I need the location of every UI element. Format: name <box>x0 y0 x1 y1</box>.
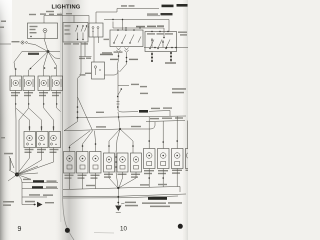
arrow chevrons under B4 <box>117 48 129 53</box>
gray label L/GN <box>147 13 158 14</box>
wire J1 right to long vertical <box>48 51 60 53</box>
stubs below tail lamps to bus <box>70 173 96 189</box>
diagonal to lamp fan <box>78 97 93 131</box>
wire CX right to V1 <box>105 71 119 75</box>
label row above boxes <box>29 11 72 15</box>
right page left edge line <box>63 4 74 240</box>
rear lamp RL2 <box>158 149 170 169</box>
labels below rear lamps <box>144 170 188 175</box>
tail light switch on V1 <box>117 88 123 108</box>
OFF label left of B4 <box>104 39 110 40</box>
rear lamp RL4 partial <box>186 149 194 169</box>
wires below center lamps converging to ground junction J3 <box>109 172 136 188</box>
bus labels y185 <box>86 184 167 186</box>
flasher component at 22,42 <box>21 41 28 44</box>
wire B2 to B3 <box>88 26 89 28</box>
fuse box B1 <box>28 23 58 39</box>
B6 internal label row <box>147 33 173 34</box>
punch hole dot right <box>178 224 183 229</box>
labels below B4 <box>100 54 138 60</box>
center lamp CB3 <box>131 153 142 172</box>
labels below front lamps <box>11 92 61 96</box>
rear lamp RL3 <box>172 149 184 169</box>
bottom right text rows <box>142 202 182 207</box>
branch wire to right at y111 <box>118 110 138 112</box>
branch y182 <box>22 182 58 184</box>
mid lamp MB3 <box>49 132 61 148</box>
wire B3 down to connector box <box>93 37 95 62</box>
wires below rear lamps <box>148 169 177 188</box>
headlamp switch box B4 <box>110 30 143 47</box>
front lamp LB3 <box>38 76 50 91</box>
wire J1 to flasher <box>28 44 48 52</box>
punch hole dot left <box>65 228 70 233</box>
bus H2 y121 right <box>146 121 185 122</box>
ground tail harness <box>17 175 22 205</box>
double bus y196 <box>63 194 186 197</box>
V1 lower crossing H1 <box>118 112 120 129</box>
connector dots on lamp feeds <box>15 67 56 70</box>
riser into B4 <box>122 20 124 31</box>
front lamp LB1 <box>10 76 22 91</box>
wire J1 left and down to lamp1 <box>14 52 48 74</box>
branch y197 <box>22 196 47 198</box>
labels right of switch <box>140 93 148 94</box>
turn signal switch box B6 <box>145 32 177 52</box>
tail lamp LL2 <box>77 152 89 174</box>
harness ground symbol <box>22 202 43 207</box>
rear lamp RL1 <box>144 149 156 169</box>
labels below B2 wires <box>79 58 91 60</box>
tail lamp LL1 <box>64 152 76 174</box>
mid lamp MB1 <box>24 132 36 148</box>
svg-text:LIGHTING: LIGHTING <box>52 5 81 11</box>
switch box B2 <box>63 23 88 43</box>
center lamp CB2 <box>117 153 128 172</box>
connector chain below B6 left <box>151 52 153 63</box>
GY labels <box>85 51 123 74</box>
fan J1 to front lamps <box>16 52 57 77</box>
bus H0 y47.5 <box>144 47 188 49</box>
label 4T 4RD <box>121 5 135 7</box>
left page right edge shadow line <box>60 12 62 222</box>
extra wire segment top right <box>147 15 160 17</box>
center lamp CB1 <box>104 153 115 172</box>
B6 levers <box>149 31 170 49</box>
junction J3 and ground G2 <box>115 187 121 213</box>
CX internals <box>94 66 100 75</box>
labels below B2 <box>64 43 88 44</box>
svg-text:9: 9 <box>18 226 22 233</box>
risers above tail lamps <box>69 131 97 152</box>
B3 internals <box>92 27 99 38</box>
connector chain below B6 right <box>170 52 172 63</box>
dark label block row2 <box>161 13 173 15</box>
left text block <box>3 201 14 206</box>
dark label under left wire <box>28 53 39 55</box>
B2 internal switches <box>76 25 88 40</box>
junction on H3 <box>119 128 121 130</box>
fuse F in B1 <box>30 26 38 34</box>
8BK label on drop <box>80 74 86 75</box>
bus H3 y129 with 4RD labels <box>64 122 155 131</box>
wire riser into B2 <box>73 16 75 23</box>
B6 right labels <box>178 32 187 36</box>
front lamp LB4 <box>51 76 63 91</box>
right page lighter paper <box>63 0 183 240</box>
long bus y188 across both pages <box>63 187 180 193</box>
drop wires to right lamp cluster <box>148 117 187 149</box>
tail lamp LL3 <box>90 152 102 174</box>
left edge small marks <box>0 21 6 29</box>
junction J1 <box>47 50 50 53</box>
star ground junction GJ <box>8 166 38 181</box>
wires below B4 into V1 <box>118 53 128 72</box>
connector pairs above mid lamps <box>29 128 54 129</box>
labels below mid lamps <box>25 149 59 153</box>
long vertical from B2 switches <box>77 57 81 122</box>
black label blocks top right <box>162 4 188 7</box>
wire B1 to top bus <box>44 16 89 24</box>
wires below front lamps rerouting <box>16 91 61 174</box>
gutter shadow band between pages <box>54 0 90 240</box>
wire w2 <box>113 22 165 39</box>
bottom right black label block <box>148 197 167 200</box>
branch right at y85 <box>118 85 129 87</box>
8BK label near gutter <box>96 112 104 113</box>
stub wires with dots inside B6 <box>151 38 164 48</box>
wire from left edge <box>0 43 11 45</box>
svg-text:10: 10 <box>120 226 127 233</box>
relay box B3 <box>89 23 103 37</box>
connector box CX <box>92 62 105 79</box>
chain wire between CB1 CB2 <box>115 153 117 172</box>
mid lamp MB2 <box>37 132 49 148</box>
top feed wire to headlamp switch <box>96 9 159 24</box>
B4 switch levers <box>113 29 141 44</box>
branch y188 <box>22 188 58 190</box>
GJ labels <box>4 153 31 180</box>
tiny label left edge <box>1 137 5 138</box>
wire B1 to J1 <box>44 39 48 52</box>
front lamp LB2 <box>23 76 35 91</box>
labels below center lamps <box>104 174 140 178</box>
diagonal from long vertical to page verticals <box>64 122 78 131</box>
second long vertical <box>48 52 60 59</box>
wires mid lamps to star ground <box>18 148 54 175</box>
connector dots mid <box>15 103 57 127</box>
V1 middle <box>117 70 119 110</box>
faint page edge line bottom <box>94 232 114 235</box>
fan from junction to center lamps <box>109 129 133 153</box>
bus H1 y117 <box>78 116 187 118</box>
wire w1 from B3 <box>104 19 169 32</box>
left spine shadow <box>0 0 12 240</box>
right page edge <box>182 0 188 240</box>
labels below tail lamps <box>65 175 100 179</box>
wires below B2 <box>79 42 92 57</box>
B3 stub <box>98 37 100 43</box>
label row y26 <box>136 25 164 27</box>
labels above H2 <box>150 117 183 119</box>
connector dots on center drops <box>108 145 134 147</box>
B2 internal text <box>65 25 71 35</box>
right edge text rows <box>172 88 186 93</box>
ground label <box>125 202 138 207</box>
paper background <box>0 0 188 240</box>
